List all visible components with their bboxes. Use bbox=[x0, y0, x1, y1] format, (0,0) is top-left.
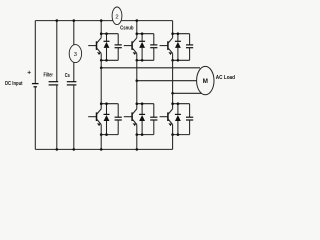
junction Q4/bottom rail bbox=[136, 148, 139, 151]
wire Q3 top node bbox=[137, 33, 154, 35]
diode Q2 freewheel bbox=[104, 104, 110, 135]
wire Q6 bottom node bbox=[173, 134, 190, 136]
diode Q1 freewheel bbox=[104, 34, 110, 61]
junction Q4 diode bottom bbox=[141, 133, 144, 136]
svg-text:+: + bbox=[27, 70, 31, 77]
capacitor Filter bbox=[49, 21, 59, 150]
transistor Q6 bbox=[160, 104, 173, 135]
wire top rail to Q5 bbox=[172, 21, 174, 34]
wire Q4 to bottom rail bbox=[136, 135, 138, 150]
wire Q1 emitter to phase A bbox=[100, 60, 102, 68]
junction Q1/top rail bbox=[100, 19, 103, 22]
junction Q3/top rail bbox=[136, 19, 139, 22]
capacitor Q2 snubber bbox=[115, 104, 122, 135]
junction Q1 diode top bbox=[105, 32, 108, 35]
capacitor Cs bbox=[67, 21, 77, 150]
diode Q3 freewheel bbox=[139, 34, 145, 61]
wire Q6 to bottom rail bbox=[172, 135, 174, 150]
wire Q2 to bottom rail bbox=[100, 135, 102, 150]
wire DC+ top rail bbox=[35, 20, 172, 22]
junction Q1 bottom node bbox=[100, 59, 103, 62]
transistor Q5 bbox=[160, 34, 173, 61]
junction filter/bottom rail bbox=[56, 148, 59, 151]
callout circle 3 bbox=[69, 45, 81, 63]
wire Q2 top node bbox=[101, 103, 118, 105]
junction Q5 diode bottom bbox=[177, 59, 180, 62]
transistor Q1 bbox=[88, 34, 101, 61]
junction Q2/bottom rail bbox=[100, 148, 103, 151]
capacitor Q1 snubber bbox=[115, 34, 122, 61]
junction phase B bbox=[136, 79, 139, 82]
junction filter/top rail bbox=[56, 19, 59, 22]
svg-text:AC Load: AC Load bbox=[216, 75, 236, 81]
motor M AC Load bbox=[197, 66, 214, 94]
junction Q3 bottom node bbox=[136, 59, 139, 62]
junction Q6 bottom node bbox=[171, 133, 174, 136]
junction Q6 diode bottom bbox=[177, 133, 180, 136]
diode Q6 freewheel bbox=[175, 104, 181, 135]
junction Q4 bottom node bbox=[136, 133, 139, 136]
junction Cs/top rail bbox=[73, 19, 76, 22]
capacitor Q3 snubber bbox=[150, 34, 157, 61]
wire Q4 top node bbox=[137, 103, 154, 105]
junction Q6 top node bbox=[171, 102, 174, 105]
wire top rail to Q1 bbox=[100, 21, 102, 34]
svg-text:Csnub: Csnub bbox=[120, 26, 134, 32]
junction Q2 diode bottom bbox=[105, 133, 108, 136]
wire Q5 emitter to phase C bbox=[172, 60, 174, 93]
wire Q1 bottom node bbox=[101, 59, 118, 61]
wire Q6 top node bbox=[173, 103, 190, 105]
wire Q3 emitter to phase B bbox=[136, 60, 138, 80]
junction Q3 diode top bbox=[141, 32, 144, 35]
junction Q6 diode top bbox=[177, 102, 180, 105]
junction phase A bbox=[100, 67, 103, 70]
junction Q3 diode bottom bbox=[141, 59, 144, 62]
svg-text:Filter: Filter bbox=[44, 73, 54, 79]
svg-text:3: 3 bbox=[74, 52, 77, 58]
wire top rail to Q3 bbox=[136, 21, 138, 34]
junction Cs/bottom rail bbox=[73, 148, 76, 151]
svg-text:Cs: Cs bbox=[65, 73, 70, 79]
wire phase B to load bbox=[137, 80, 197, 82]
transistor Q3 bbox=[124, 34, 137, 61]
junction phase C bbox=[171, 92, 174, 95]
junction Q5 diode top bbox=[177, 32, 180, 35]
wire Q3 bottom node bbox=[137, 59, 154, 61]
svg-text:DC Input: DC Input bbox=[5, 81, 23, 87]
wire Q2 bottom node bbox=[101, 134, 118, 136]
wire phase to Q6 bbox=[172, 93, 174, 103]
wire phase to Q4 bbox=[136, 81, 138, 104]
junction Q4 top node bbox=[136, 102, 139, 105]
svg-text:M: M bbox=[203, 78, 208, 85]
svg-text:2: 2 bbox=[115, 14, 118, 20]
junction Q4 diode top bbox=[141, 102, 144, 105]
capacitor Q5 snubber bbox=[186, 34, 193, 61]
junction Q2 top node bbox=[100, 102, 103, 105]
transistor Q2 bbox=[88, 104, 101, 135]
wire DC- bottom rail bbox=[35, 148, 172, 150]
wire phase A to load bbox=[101, 67, 200, 69]
wire Q4 bottom node bbox=[137, 134, 154, 136]
junction Q3 top node bbox=[136, 32, 139, 35]
junction Q5 top node bbox=[171, 32, 174, 35]
junction Q5 bottom node bbox=[171, 59, 174, 62]
wire Q5 bottom node bbox=[173, 59, 190, 61]
battery DC Input bbox=[32, 21, 39, 150]
callout circle 2 bbox=[112, 7, 122, 25]
junction Q2 diode top bbox=[105, 102, 108, 105]
wire phase C to load bbox=[173, 92, 203, 94]
diode Q5 freewheel bbox=[175, 34, 181, 61]
wire Q1 top node bbox=[101, 33, 118, 35]
wire phase to Q2 bbox=[100, 68, 102, 104]
junction Q1 top node bbox=[100, 32, 103, 35]
junction Q1 diode bottom bbox=[105, 59, 108, 62]
wire Q5 top node bbox=[173, 33, 190, 35]
diode Q4 freewheel bbox=[139, 104, 145, 135]
capacitor Q6 snubber bbox=[186, 104, 193, 135]
transistor Q4 bbox=[124, 104, 137, 135]
capacitor Q4 snubber bbox=[150, 104, 157, 135]
junction Q2 bottom node bbox=[100, 133, 103, 136]
